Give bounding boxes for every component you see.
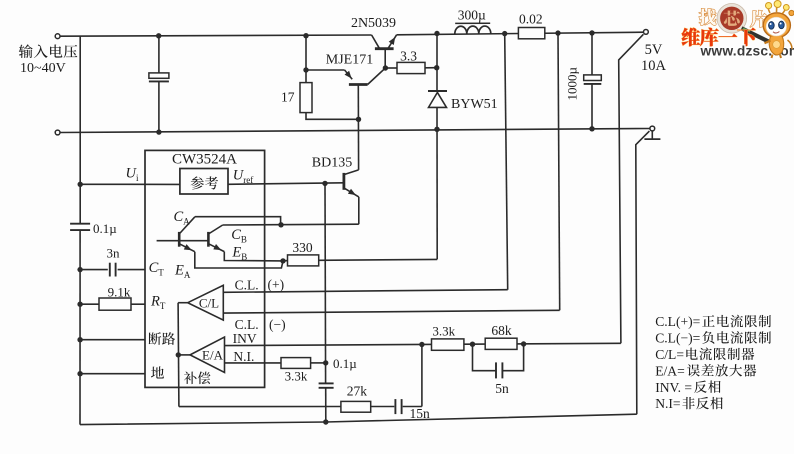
wire C5 lower lead (325, 388, 327, 422)
label EB (231, 244, 247, 262)
wire 300µ label underline (455, 22, 490, 24)
op-amp U1 CW3524A outline (145, 150, 265, 387)
watermark 维库一下 text (682, 28, 756, 47)
wire negative input rail (60, 129, 650, 133)
capacitor C6 15n (395, 399, 401, 414)
svg-text:9.1k: 9.1k (108, 284, 131, 299)
wire 15n to INV riser (403, 406, 422, 408)
node junction 68k right (521, 341, 526, 346)
watermark magnifier circle (717, 3, 747, 33)
wire left bus vertical lower (ground bus) (79, 230, 81, 425)
wire C1 lower lead (158, 81, 160, 132)
wire EA emitter run (195, 252, 283, 268)
wire CT lead left (80, 269, 108, 271)
node junction L1 / R3 / CL+ sense (502, 31, 507, 36)
wire top rail switch-node segment (397, 32, 644, 35)
label 0.1µ N.I. (333, 356, 357, 371)
node junction CA/CB (278, 222, 283, 227)
label legend INV. =反相 (655, 380, 720, 395)
transistor QA (output A) (157, 217, 209, 252)
wire R2 right lead (425, 67, 437, 69)
resistor R9 68k (485, 338, 517, 349)
svg-text:C.L(−)=: C.L(−)= (655, 331, 700, 347)
capacitor C5 0.1µ (N.I.) (319, 383, 334, 387)
svg-text:C/L: C/L (199, 296, 219, 311)
wire Q2 base / Q3 collector vertical (357, 85, 359, 170)
transistor Q2 MJE171 (306, 68, 385, 85)
svg-text:E/A: E/A (202, 347, 224, 362)
wire C1 upper lead (158, 36, 160, 73)
label E/A (202, 347, 224, 362)
watermark mascot (763, 1, 794, 59)
node junction INV line / comp riser (419, 342, 424, 347)
wire CT lead right (118, 269, 145, 271)
node junction ground bus / RT (77, 302, 82, 307)
wire ground remote sense diagonal (636, 131, 650, 414)
capacitor C7 5n (496, 362, 502, 378)
label RT pin (150, 294, 166, 312)
label legend E/A=误差放大器 (655, 363, 756, 378)
node junction C/L out / E/A out (176, 352, 181, 357)
svg-text:3.3: 3.3 (400, 48, 417, 63)
svg-text:10A: 10A (641, 58, 667, 74)
label 输入电压 (19, 44, 78, 58)
wire E/A output stub (178, 354, 190, 356)
svg-text:5V: 5V (645, 42, 663, 58)
svg-text:MJE171: MJE171 (326, 52, 373, 67)
node junction negative rail / C1 (156, 129, 161, 134)
svg-text:0.02: 0.02 (519, 11, 543, 26)
label C/L (199, 296, 219, 311)
svg-text:68k: 68k (491, 323, 512, 338)
svg-text:(−): (−) (269, 317, 286, 332)
label INV pin (233, 331, 257, 346)
label legend C.L(+)=正电流限制 (655, 314, 771, 330)
wire C4 lower lead (591, 84, 593, 129)
label 15n (410, 406, 431, 421)
node junction R3 right / CL- sense (555, 30, 560, 35)
resistor R6 3.3k (N.I.) (281, 358, 311, 369)
wire C/L output stub (178, 302, 188, 304)
label Ui (126, 166, 139, 184)
wire CA-CB common to BD135 emitter (223, 223, 359, 226)
node junction negative rail / D1 anode (434, 127, 439, 132)
node junction R2 / freewheel column (434, 65, 439, 70)
diode D1 BYW51 (428, 91, 447, 107)
watermark 找 character (699, 9, 716, 26)
label 断路 pin (149, 332, 176, 345)
node junction bottom rail / C5 (323, 419, 328, 424)
label BD135 (312, 156, 352, 171)
svg-text:3.3k: 3.3k (285, 369, 308, 384)
label legend C.L(−)=负电流限制 (655, 331, 771, 347)
label C.L. (+) pin (235, 277, 285, 292)
wire 330 left lead (283, 260, 288, 262)
wire C.L.(-) sense line (223, 310, 559, 313)
svg-text:300µ: 300µ (458, 7, 486, 22)
node junction top rail / C1 (156, 33, 161, 38)
capacitor C4 1000µ (584, 75, 602, 84)
resistor R8 3.3k (INV) (432, 339, 464, 350)
label 27k (347, 383, 368, 398)
node junction top rail / Q2 emitter (303, 33, 308, 38)
node junction ground bus / shutdown pin (77, 337, 82, 342)
svg-text:3.3k: 3.3k (432, 324, 455, 339)
svg-text:15n: 15n (410, 406, 431, 421)
label CA (174, 209, 191, 227)
wire C.L.(+) sense line (223, 290, 507, 293)
resistor R7 27k (341, 401, 371, 412)
wire RT lead right (131, 303, 145, 305)
label 5V (645, 42, 663, 58)
resistor R1 17 (300, 83, 312, 113)
label 330 (292, 240, 313, 255)
wire D1 cathode lead (436, 34, 438, 92)
label EA (174, 262, 191, 280)
wire RT lead left (80, 303, 99, 305)
wire Ui pin lead (80, 183, 180, 185)
svg-text:2N5039: 2N5039 (351, 16, 396, 31)
wire C/L-E/A output bus vertical (177, 303, 180, 407)
wire 5n parallel branch (473, 344, 524, 371)
label 补偿 pin (184, 372, 211, 385)
label 3.3k right (432, 324, 455, 339)
svg-text:C.L(+)=: C.L(+)= (655, 314, 700, 330)
transistor QB (output B) (208, 225, 224, 252)
label BYW51 (451, 97, 498, 112)
svg-text:0.1µ: 0.1µ (333, 356, 357, 371)
wire R2 left lead (385, 67, 397, 69)
op-amp E/A error amplifier (190, 337, 225, 372)
svg-text:0.1µ: 0.1µ (93, 221, 117, 236)
svg-text:C/L=: C/L= (655, 347, 684, 362)
node output +5V terminal (644, 30, 649, 35)
label CB (231, 227, 247, 245)
node junction ground bus / ground pin (77, 371, 82, 376)
op-amp C/L comparator (188, 285, 224, 320)
svg-text:INV: INV (233, 331, 257, 346)
label 5n (495, 381, 509, 396)
wire +5V remote sense diagonal (619, 34, 644, 343)
node junction N.I. / Uref column (323, 360, 328, 365)
label 10A (641, 58, 667, 74)
svg-text:27k: 27k (347, 383, 368, 398)
label C.L. (-) pin (235, 317, 286, 332)
node junction 3.3k/68k (470, 342, 475, 347)
watermark 片 character (750, 10, 767, 27)
node junction R1 / Q2 emitter (303, 67, 308, 72)
svg-text:N.I.: N.I. (233, 349, 254, 364)
node junction R1 / Q3 collector line (356, 117, 361, 122)
label 0.1µ left (93, 221, 117, 236)
label 2N5039 (351, 16, 396, 31)
label legend C/L=电流限制器 (655, 347, 754, 362)
svg-text:E/A=: E/A= (655, 363, 685, 378)
svg-text:17: 17 (281, 90, 295, 105)
label 9.1k (108, 284, 131, 299)
svg-text:C.L.: C.L. (235, 277, 259, 292)
label CT pin (149, 260, 165, 278)
wire D1 anode lead (436, 107, 438, 259)
wire shutdown pin lead (80, 339, 145, 341)
svg-text:BYW51: BYW51 (451, 97, 498, 112)
label 300µ (458, 7, 486, 22)
label 3n (107, 246, 121, 261)
label CW3524A (172, 151, 237, 167)
svg-text:C.L.: C.L. (235, 317, 259, 332)
svg-text:330: 330 (292, 240, 313, 255)
node junction switch node / D1 (434, 31, 439, 36)
svg-text:3n: 3n (107, 246, 121, 261)
watermark magnifier handle (742, 28, 769, 41)
wire CL+ sense vertical (505, 34, 508, 290)
wire ground pin lead (80, 373, 145, 375)
wire C4 upper lead (591, 33, 593, 75)
svg-text:5n: 5n (495, 381, 509, 396)
svg-text:N.I=: N.I= (655, 396, 680, 411)
svg-text:10~40V: 10~40V (20, 61, 66, 76)
resistor R2 3.3 (397, 62, 425, 73)
label 地 pin (151, 366, 164, 378)
wire INV riser (421, 345, 423, 407)
wire left bus vertical (Ui feed) (79, 36, 81, 224)
wire CL- sense vertical (558, 33, 560, 310)
label 10~40V (20, 61, 66, 76)
wire R1 upper lead (305, 70, 307, 83)
node junction Uref / feedback column (322, 181, 327, 186)
wire Q2 emitter column (305, 36, 307, 70)
wire Uref lead to BD135 base (228, 183, 344, 185)
transistor Q1 2N5039 (372, 35, 397, 68)
node junction EA/EB/330 (280, 258, 285, 263)
label 1000µ (565, 67, 580, 101)
transistor Q3 BD135 (344, 170, 359, 224)
svg-text:(+): (+) (268, 277, 285, 292)
label 3.3k left (285, 369, 308, 384)
watermark www.dzsc.com (700, 43, 794, 58)
wire 3.3k to junction (311, 362, 326, 364)
label 0.02 (519, 11, 543, 26)
wire 27k to 15n (371, 406, 395, 408)
wire Uref column upper (324, 183, 327, 383)
wire R1 bottom to Q3 collector line (306, 113, 359, 120)
svg-text:INV. =: INV. = (655, 380, 692, 395)
node output ground terminal (650, 126, 655, 131)
svg-text:CW3524A: CW3524A (172, 151, 237, 167)
node input - terminal (55, 130, 60, 135)
resistor R4 330 (288, 255, 319, 266)
ground symbol (chassis) (644, 131, 660, 139)
block 参考 (reference) (180, 169, 228, 195)
label 17 (281, 90, 295, 105)
capacitor C1 (input filter) (149, 73, 169, 82)
node input + terminal (55, 34, 60, 39)
node junction ground bus / CT cap (77, 267, 82, 272)
label N.I. pin (233, 349, 254, 364)
resistor R3 0.02 shunt (518, 28, 544, 39)
label Uref (233, 167, 253, 185)
capacitor C3 0.1µ (left bus) (70, 224, 90, 230)
node junction left bus / Ui (78, 182, 83, 187)
node junction negative rail / C4 (589, 126, 594, 131)
watermark 芯 in circle (724, 10, 740, 25)
wire top positive rail left segment (60, 35, 372, 36)
wire N.I. lead (225, 362, 282, 364)
capacitor C2 3n (110, 263, 116, 277)
wire compensation line (179, 406, 341, 408)
wire bottom ground rail (80, 414, 637, 424)
resistor R5 9.1k (99, 298, 131, 310)
wire CA elbow (195, 217, 281, 225)
svg-text:BD135: BD135 (312, 156, 352, 171)
wire INV feedback line (225, 343, 621, 345)
node junction output rail / C4 (589, 30, 594, 35)
label 3.3 (400, 48, 417, 63)
label MJE171 (326, 52, 373, 67)
label 68k (491, 323, 512, 338)
wire E-B emitters to rail (right leg of 330) (319, 258, 437, 261)
node junction Q1 base / R2 / Q2 collector (383, 65, 388, 70)
svg-text:1000µ: 1000µ (565, 67, 580, 101)
label legend N.I=非反相 (655, 396, 723, 411)
label 参考 (191, 176, 218, 189)
wire EB emitter run (224, 252, 283, 261)
inductor L1 300µ (455, 26, 491, 34)
